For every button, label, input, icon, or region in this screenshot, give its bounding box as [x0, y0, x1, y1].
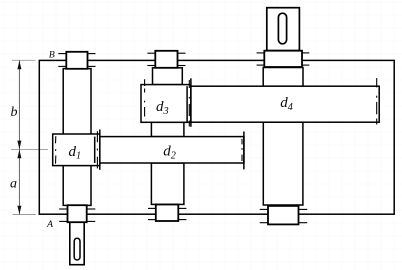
- bearing shaft I bottom ticks: [59, 209, 95, 221]
- gear d3 (pinion, stage 2, on shaft II): [141, 85, 191, 123]
- shaft II upper section: [153, 68, 183, 85]
- pitch line of d3 left end: [144, 79, 146, 116]
- shaft II lower section: [151, 163, 184, 204]
- dimension extension line middle (gear d1-d2 axis): [11, 148, 48, 150]
- bearing shaft II top ticks: [147, 53, 185, 65]
- common pitch line d3-d4 mesh: [188, 80, 190, 127]
- svg-text:b: b: [11, 105, 18, 120]
- bearing shaft III bottom ticks: [260, 209, 308, 222]
- dimension line a: [18, 149, 20, 214]
- gear d2 right edge extended (overshoot): [243, 132, 245, 170]
- bearing shaft II bottom ticks: [148, 208, 186, 219]
- pitch line of d4 right end: [376, 78, 378, 124]
- shaft I input coupling end: [70, 222, 84, 265]
- gear d1 (pinion, stage 1, on shaft I): [53, 134, 100, 166]
- svg-text:A: A: [46, 219, 54, 230]
- bearing shaft III bottom: [268, 206, 299, 225]
- arrowhead bottom (down): [17, 206, 21, 215]
- bearing shaft III top ticks: [257, 53, 310, 65]
- arrowhead middle down: [17, 141, 21, 150]
- gearbox housing: [39, 60, 394, 214]
- bearing shaft II top: [155, 51, 177, 68]
- pitch line of d1 left end: [55, 136, 57, 163]
- arrowhead top (up): [17, 61, 21, 70]
- gear d4 left edge (restored over d3): [186, 86, 188, 122]
- bearing shaft III top: [264, 51, 302, 67]
- shaft I upper section: [63, 69, 91, 135]
- dimension extension line bottom (level A): [13, 214, 36, 216]
- gear d2 left edge (restored over d1): [94, 137, 96, 163]
- gear d2 (wheel, stage 1, on shaft II): [95, 137, 244, 163]
- gear d4 (wheel, stage 2, on shaft III): [187, 86, 379, 122]
- shaft II middle section: [151, 122, 184, 136]
- bearing shaft I bottom: [68, 205, 87, 222]
- svg-text:B: B: [49, 49, 55, 60]
- dimension line b: [18, 60, 20, 149]
- common pitch line d1-d2 mesh: [96, 131, 98, 168]
- arrowhead middle up: [17, 150, 21, 159]
- gear d1 right edge extended (overshoot at mesh): [99, 130, 101, 170]
- shaft III coupling keyway slot: [278, 13, 286, 44]
- gear d3 right edge extended (overshoot at mesh): [190, 78, 192, 127]
- shaft I lower section: [63, 165, 91, 205]
- shaft III upper section: [263, 68, 303, 87]
- bearing shaft I top ticks: [58, 54, 95, 67]
- svg-text:a: a: [10, 177, 17, 192]
- shaft III output coupling end: [267, 8, 300, 51]
- shaft III lower section: [263, 122, 303, 205]
- shaft I coupling keyway slot: [74, 238, 80, 260]
- pitch line of d2 right end: [241, 139, 243, 161]
- bearing shaft II bottom: [156, 205, 179, 222]
- dimension extension line top (level B): [12, 59, 36, 61]
- bearing shaft I top: [66, 52, 87, 69]
